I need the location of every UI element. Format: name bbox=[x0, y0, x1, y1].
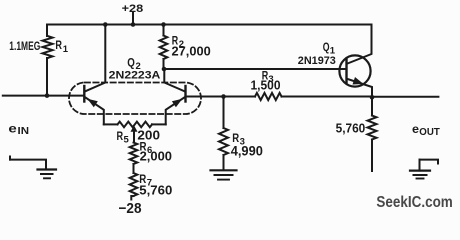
svg-text:+28: +28 bbox=[122, 3, 144, 15]
svg-text:1: 1 bbox=[63, 44, 69, 55]
svg-text:Q: Q bbox=[323, 40, 330, 54]
svg-text:1,500: 1,500 bbox=[251, 78, 281, 93]
svg-text:R: R bbox=[117, 129, 124, 143]
svg-text:Q: Q bbox=[127, 56, 135, 70]
svg-text:2,000: 2,000 bbox=[140, 148, 172, 163]
svg-text:27,000: 27,000 bbox=[172, 43, 211, 58]
svg-text:4,990: 4,990 bbox=[231, 143, 263, 159]
svg-text:2N2223A: 2N2223A bbox=[109, 70, 161, 82]
svg-text:OUT: OUT bbox=[419, 127, 440, 138]
svg-text:−28: −28 bbox=[119, 201, 142, 215]
svg-text:SeekIC.com: SeekIC.com bbox=[376, 194, 452, 211]
svg-text:R: R bbox=[55, 38, 62, 52]
svg-text:5: 5 bbox=[124, 135, 130, 146]
svg-text:IN: IN bbox=[18, 126, 30, 137]
svg-text:e: e bbox=[412, 124, 419, 136]
svg-text:1.1MEG: 1.1MEG bbox=[9, 39, 40, 53]
svg-text:5,760: 5,760 bbox=[139, 183, 172, 198]
svg-text:2N1973: 2N1973 bbox=[298, 55, 336, 67]
svg-text:e: e bbox=[8, 123, 16, 135]
svg-text:5,760: 5,760 bbox=[336, 121, 366, 136]
